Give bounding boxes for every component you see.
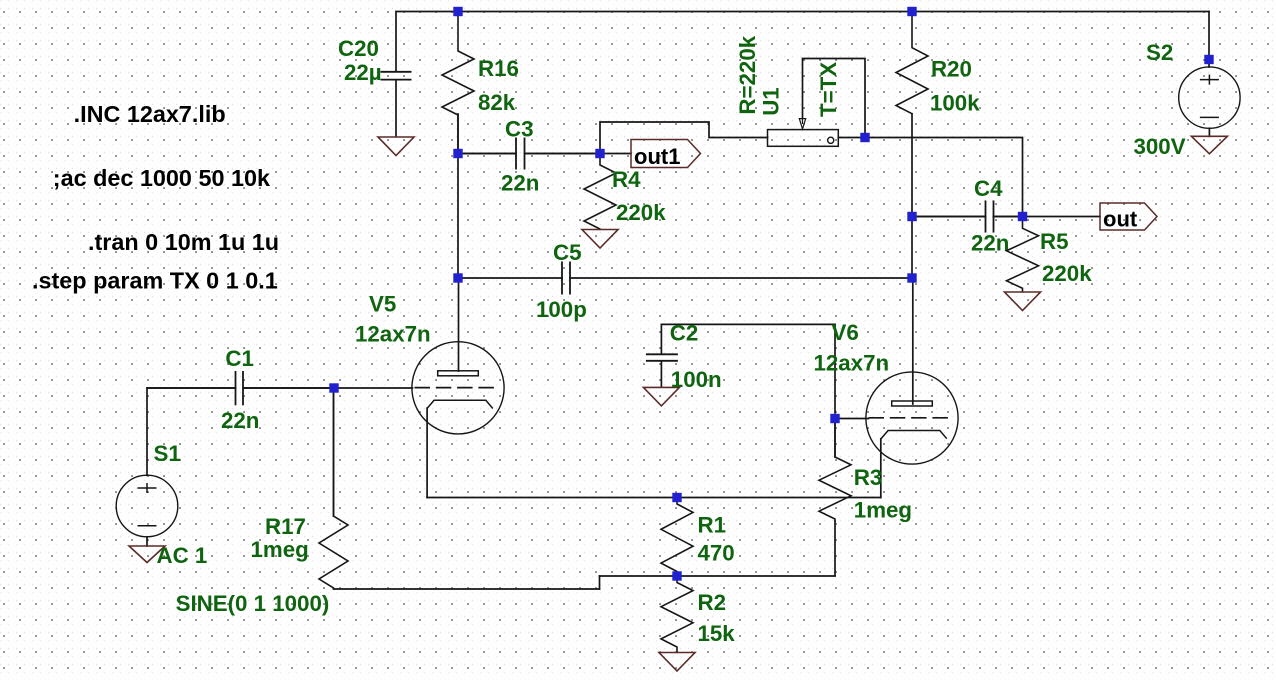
wire V5 cathode lead <box>426 408 428 497</box>
wire U1 node to C4 right node <box>865 138 1023 217</box>
svg-text:C5: C5 <box>553 240 582 265</box>
svg-text:S2: S2 <box>1146 40 1173 65</box>
resistor R1 <box>661 498 693 576</box>
resistor R16 <box>442 12 474 154</box>
wire node to out1 flag <box>600 153 631 155</box>
potentiometer U1 wiper arrow <box>799 59 805 130</box>
node junction C4 right / out <box>1018 212 1027 221</box>
wire C4 node down to C5 rail <box>911 217 913 279</box>
capacitor C1 <box>147 371 334 405</box>
svg-text:V6: V6 <box>832 320 859 345</box>
node junction C3 left <box>453 149 462 158</box>
svg-text:.step param TX 0 1 0.1: .step param TX 0 1 0.1 <box>32 268 278 294</box>
node junction C5 right / V6 anode <box>907 273 916 282</box>
svg-text:R5: R5 <box>1040 229 1069 254</box>
svg-text:AC 1: AC 1 <box>157 543 208 568</box>
ground R4 <box>582 230 618 249</box>
svg-text:.tran 0 10m 1u 1u: .tran 0 10m 1u 1u <box>88 229 279 255</box>
wire out1 node to U1 left pin <box>600 122 768 154</box>
wire top rail to S2 <box>1208 12 1210 68</box>
triode V6 12ax7 <box>866 372 958 464</box>
wire S1 top lead <box>146 388 148 475</box>
wire C4 right <box>994 216 1023 218</box>
capacitor C4 <box>912 201 1023 233</box>
svg-text:.INC 12ax7.lib: .INC 12ax7.lib <box>74 101 226 127</box>
svg-text:220k: 220k <box>616 200 666 225</box>
svg-text:100n: 100n <box>671 367 722 392</box>
net flag out1 <box>631 140 701 170</box>
wire S1 to C1 <box>147 387 236 389</box>
svg-text:470: 470 <box>698 541 735 566</box>
wire node to V6 grid <box>835 418 869 420</box>
wire R17 bottom run <box>334 588 600 590</box>
node junction R4 / out1 <box>595 149 604 158</box>
svg-text:300V: 300V <box>1134 134 1186 159</box>
ground C20 <box>378 137 414 156</box>
svg-text:C4: C4 <box>974 176 1003 201</box>
svg-text:;ac dec 1000 50 10k: ;ac dec 1000 50 10k <box>53 165 271 191</box>
wire U1 right pin to node <box>838 137 865 139</box>
svg-text:220k: 220k <box>1042 261 1092 286</box>
voltage source S2 <box>1179 67 1240 128</box>
triode V5 12ax7 <box>412 342 504 434</box>
node junction C4 left <box>907 212 916 221</box>
svg-text:R16: R16 <box>478 56 519 81</box>
svg-text:T=TX: T=TX <box>816 62 841 117</box>
svg-text:1meg: 1meg <box>251 537 309 562</box>
wire cathode rail to R1 node <box>427 497 881 499</box>
svg-text:12ax7n: 12ax7n <box>355 322 431 347</box>
wire V5 anode lead <box>458 278 460 371</box>
wire C4 left <box>912 216 986 218</box>
resistor R2 <box>661 576 693 653</box>
svg-text:22n: 22n <box>971 231 1009 256</box>
wire C5 right <box>570 277 912 279</box>
svg-text:SINE(0 1 1000): SINE(0 1 1000) <box>176 591 330 616</box>
svg-text:R3: R3 <box>854 465 883 490</box>
wire top supply rail <box>396 11 1209 13</box>
ground S2 <box>1191 136 1227 154</box>
wire U1 wiper to right pin bracket <box>803 59 866 138</box>
svg-text:R20: R20 <box>931 57 972 82</box>
node junction V6 grid / C2 / R3 <box>830 414 839 423</box>
capacitor C20 <box>381 12 412 138</box>
node junction cathode rail / R1 <box>672 493 681 502</box>
ground C2 <box>643 387 679 406</box>
wire C1 to grid node <box>243 387 334 389</box>
wire S1 bottom lead <box>146 537 148 546</box>
wire C3 node left <box>458 153 516 155</box>
wire V6 cathode lead <box>880 439 882 498</box>
svg-text:22n: 22n <box>221 408 259 433</box>
svg-text:22µ: 22µ <box>344 60 382 85</box>
node junction R1 / R2 <box>672 571 681 580</box>
ground S1 <box>129 546 165 563</box>
node junction U1 right <box>860 133 869 142</box>
capacitor C2 <box>646 324 678 387</box>
wire node to V5 grid <box>334 387 413 389</box>
svg-text:V5: V5 <box>369 292 396 317</box>
wire C3 to R4 node <box>525 153 601 155</box>
wire C2 top rail <box>661 323 835 325</box>
node junction top rail / R16 <box>453 7 462 16</box>
node junction C1 / V5 grid / R17 <box>329 383 338 392</box>
ground R5 <box>1005 292 1041 311</box>
node junction S2 top <box>1204 55 1213 64</box>
svg-text:C1: C1 <box>225 346 254 371</box>
svg-text:R17: R17 <box>265 514 306 539</box>
wire R20 bottom lead <box>911 114 913 217</box>
wire S2 bottom lead <box>1208 128 1210 136</box>
wire V6 grid node to R3 top <box>834 424 836 457</box>
svg-text:R=220k: R=220k <box>735 35 760 114</box>
svg-text:82k: 82k <box>478 90 516 115</box>
svg-text:R4: R4 <box>612 167 641 192</box>
voltage source S1 <box>116 475 178 537</box>
wire R16 bottom to C3/C5 nodes <box>457 114 459 278</box>
svg-text:out: out <box>1103 207 1138 232</box>
wire C2 node to V6 grid node <box>834 324 836 413</box>
wire node to out flag <box>1023 216 1101 218</box>
svg-text:out1: out1 <box>634 144 680 169</box>
svg-text:C3: C3 <box>505 117 534 142</box>
svg-text:C2: C2 <box>670 320 699 345</box>
node junction top rail / R20 <box>907 7 916 16</box>
resistor R3 <box>819 419 851 522</box>
resistor R17 <box>319 388 348 589</box>
node junction C5 left / V5 anode <box>453 273 462 282</box>
wire V6 anode lead <box>912 278 914 404</box>
resistor R4 <box>584 154 616 230</box>
svg-text:R2: R2 <box>698 590 727 615</box>
svg-text:R1: R1 <box>698 513 727 538</box>
svg-text:100k: 100k <box>930 91 980 116</box>
net flag out <box>1100 203 1157 232</box>
svg-text:15k: 15k <box>698 621 736 646</box>
svg-text:S1: S1 <box>154 441 181 466</box>
svg-text:U1: U1 <box>759 87 784 116</box>
svg-text:22n: 22n <box>501 171 539 196</box>
svg-text:12ax7n: 12ax7n <box>814 351 890 376</box>
resistor R20 <box>896 12 928 115</box>
resistor R5 <box>1007 217 1039 293</box>
svg-text:100p: 100p <box>536 297 587 322</box>
wire C5 left <box>458 277 562 279</box>
wire R17 top lead <box>333 388 335 516</box>
wire R3 bottom lead <box>834 521 836 576</box>
capacitor C3 <box>458 138 600 170</box>
capacitor C5 <box>562 262 570 295</box>
wire R17 jog up <box>599 576 601 589</box>
svg-text:C20: C20 <box>338 36 379 61</box>
wire R3/R1 bottom rail <box>600 575 836 577</box>
ground R2 <box>659 653 695 672</box>
potentiometer U1 body <box>768 130 839 147</box>
svg-text:1meg: 1meg <box>854 498 912 523</box>
